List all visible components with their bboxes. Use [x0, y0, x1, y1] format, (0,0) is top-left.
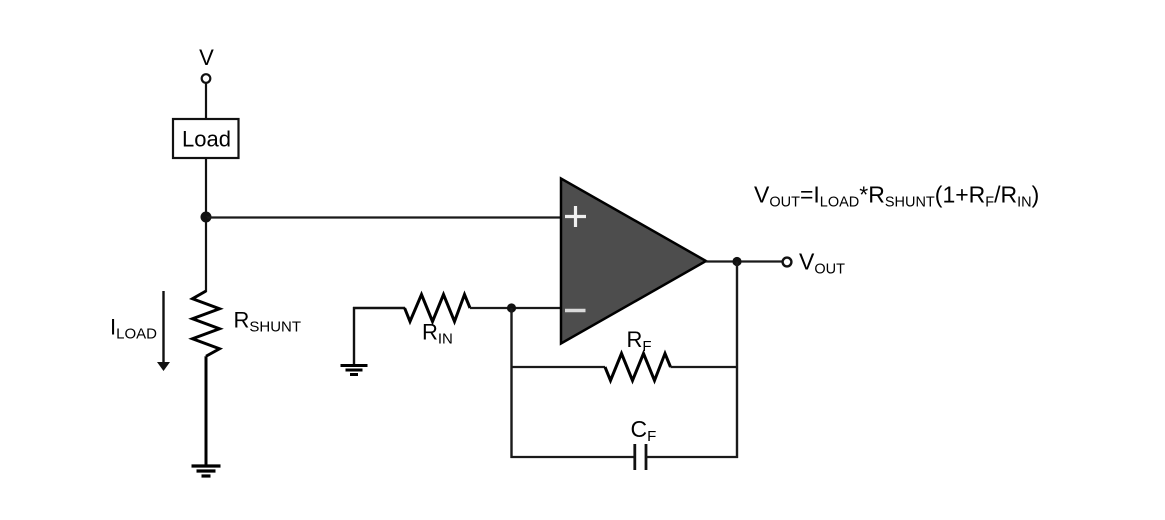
wire RF left — [511, 366, 606, 368]
op-amp U1 — [561, 179, 706, 344]
ground (RIN input) — [341, 366, 368, 375]
resistor RSHUNT — [193, 291, 220, 356]
label V (supply) — [199, 45, 214, 70]
load box Load — [173, 119, 239, 158]
label ILOAD — [110, 315, 157, 343]
wire V terminal to Load — [205, 83, 207, 119]
label RSHUNT — [234, 308, 302, 336]
wire RF right — [671, 366, 739, 368]
wire op-amp output — [706, 260, 782, 262]
current arrow ILOAD — [157, 291, 170, 371]
node A junction — [201, 212, 212, 223]
wire output node down — [736, 262, 738, 459]
wire RSHUNT to ground — [205, 356, 208, 466]
resistor RF — [605, 354, 671, 381]
terminal circle VOUT — [783, 258, 792, 267]
wire node A to op-amp + input — [206, 216, 561, 218]
terminal circle V — [202, 74, 211, 83]
wire RIN ground branch (corner) — [353, 307, 405, 366]
wire Load to node A — [205, 158, 207, 217]
resistor RIN — [405, 295, 470, 322]
wire CF left — [511, 456, 635, 458]
node B junction (inverting input) — [507, 303, 516, 312]
wire CF right — [646, 456, 738, 458]
svg-text:Load: Load — [182, 127, 231, 152]
wire inverting node down — [510, 308, 512, 458]
label RF — [627, 327, 652, 355]
formula VOUT=ILOAD*RSHUNT(1+RF/RIN) — [754, 182, 1039, 211]
wire node A to RSHUNT — [205, 217, 207, 292]
capacitor CF — [635, 444, 646, 470]
label CF — [631, 416, 657, 445]
ground (below RSHUNT) — [192, 466, 221, 476]
label RIN — [422, 320, 453, 348]
wire RIN to op-amp - input — [470, 307, 561, 309]
label VOUT — [799, 249, 845, 278]
node C junction (output) — [732, 257, 741, 266]
svg-text:V: V — [199, 45, 214, 70]
